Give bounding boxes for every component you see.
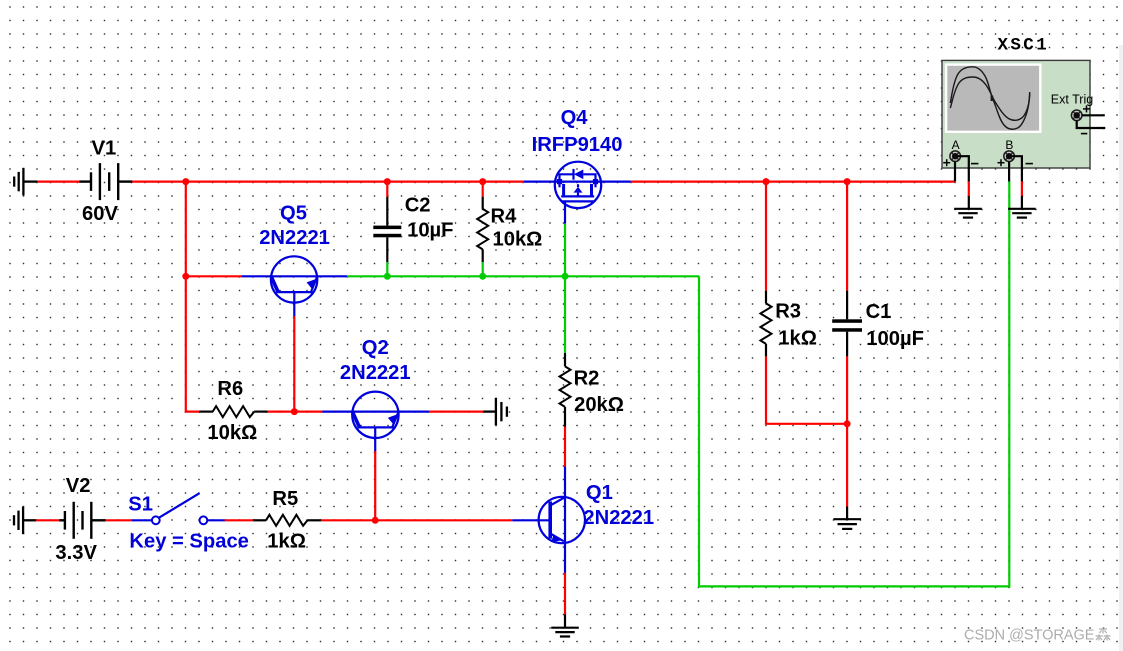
svg-text:20kΩ: 20kΩ xyxy=(574,394,624,416)
transistor Q1 xyxy=(512,467,585,573)
svg-text:10kΩ: 10kΩ xyxy=(207,422,257,444)
svg-text:C2: C2 xyxy=(405,195,431,217)
label scope B minus xyxy=(1026,163,1033,165)
wire green net: Q5 emitter row xyxy=(347,275,699,277)
svg-text:R3: R3 xyxy=(775,301,801,323)
wire V2 to ground (red) xyxy=(36,519,60,521)
right window edge shading xyxy=(1119,45,1123,651)
battery V1 xyxy=(79,163,132,200)
ground left of V2 xyxy=(14,507,36,535)
svg-text:2N2221: 2N2221 xyxy=(259,227,330,249)
ground below C1 xyxy=(833,507,861,529)
capacitor C1 xyxy=(832,291,862,357)
junction node top rail at R4 xyxy=(479,178,486,185)
ground below scope B xyxy=(1008,209,1036,218)
watermark CJK glyph xyxy=(1096,628,1111,641)
svg-text:2N2221: 2N2221 xyxy=(583,507,654,529)
wire R2 bottom to Q1 collector (red) xyxy=(564,426,566,467)
svg-text:R5: R5 xyxy=(272,488,298,510)
capacitor C2 xyxy=(373,182,401,263)
oscilloscope XSC1 body xyxy=(942,60,1090,168)
transistor Q5 xyxy=(241,256,347,316)
oscilloscope terminal A xyxy=(950,151,961,162)
junction node R5/Q2 collector xyxy=(372,517,379,524)
svg-text:10µF: 10µF xyxy=(407,220,453,242)
svg-text:S1: S1 xyxy=(128,494,153,516)
ground left of V1 xyxy=(14,168,37,196)
svg-text:2N2221: 2N2221 xyxy=(340,362,411,384)
wire V2 positive to S1 (red) xyxy=(105,519,132,521)
wire Q1 emitter to ground (red) xyxy=(564,573,566,615)
wire Q5 base tap (red) xyxy=(186,275,242,277)
oscilloscope terminal Ext Trig xyxy=(1071,110,1082,121)
wire Ext Trig minus stub xyxy=(1077,121,1106,129)
ground below scope A xyxy=(954,209,982,218)
resistor R3 xyxy=(761,291,772,357)
junction node green at R2/Q4 gate xyxy=(562,273,569,280)
wire Ext Trig plus stub xyxy=(1082,114,1105,116)
svg-text:3.3V: 3.3V xyxy=(55,542,97,564)
wire vertical from top rail down to R6 row (red) xyxy=(186,182,200,412)
wire green net: R4 bottom stub xyxy=(482,262,484,276)
oscilloscope waveform trace 2 xyxy=(950,77,1030,120)
wire S1 to R5 (red) xyxy=(224,519,253,521)
oscilloscope trigger mark xyxy=(991,96,994,102)
svg-text:Q4: Q4 xyxy=(561,107,589,129)
wire green net: C2 bottom stub xyxy=(386,262,388,276)
battery V2 xyxy=(59,502,105,539)
wire R5 to Q1 base (red) xyxy=(321,519,513,521)
svg-text:V1: V1 xyxy=(92,138,117,160)
wire scope B- red segment xyxy=(1021,181,1023,196)
svg-text:Q5: Q5 xyxy=(280,203,307,225)
svg-text:60V: 60V xyxy=(82,203,118,225)
wire V1 negative to ground (red) xyxy=(37,181,80,183)
switch S1 xyxy=(132,493,225,524)
svg-text:10kΩ: 10kΩ xyxy=(493,229,543,251)
wire C1 bottom to ground (red) xyxy=(846,356,848,506)
wire green net: right loop down and across to scope B+ xyxy=(699,181,1009,586)
svg-text:R4: R4 xyxy=(491,206,518,228)
svg-text:R2: R2 xyxy=(574,368,600,390)
svg-text:R6: R6 xyxy=(217,378,243,400)
ground right of Q2 xyxy=(483,398,507,426)
transistor Q2 xyxy=(322,392,429,452)
wire top rail to C1 (red) xyxy=(846,182,848,291)
svg-text:CSDN @STORAGE: CSDN @STORAGE xyxy=(964,628,1095,644)
ground below Q1 xyxy=(551,615,579,637)
wire top rail right of Q4 to scope A+ (red) xyxy=(631,181,955,183)
junction node top rail at V1 branch xyxy=(182,178,189,185)
svg-text:B: B xyxy=(1005,138,1013,152)
junction node green at R4 xyxy=(479,273,486,280)
wire scope B plus down (black stub, joins green) xyxy=(1008,161,1010,181)
wire scope A- red segment xyxy=(968,181,970,196)
label Ext Trig plus xyxy=(1083,105,1090,112)
svg-text:XSC1: XSC1 xyxy=(998,35,1050,55)
label scope B plus xyxy=(998,159,1005,166)
wire R3 bottom to C1 bottom node (red) xyxy=(766,356,847,423)
svg-text:Ext Trig: Ext Trig xyxy=(1051,93,1093,107)
wire V1 positive to node V1R (red top rail left) xyxy=(132,181,524,183)
resistor R5 xyxy=(253,515,321,526)
wire R6 right lead to Q2 base (red) xyxy=(268,411,323,413)
wire scope B minus to ground (black stubs) xyxy=(1012,156,1022,209)
svg-text:Key = Space: Key = Space xyxy=(129,531,249,553)
MOSFET Q4 xyxy=(524,162,631,224)
resistor R4 xyxy=(477,182,488,263)
svg-text:Q2: Q2 xyxy=(362,337,389,359)
label scope A minus xyxy=(971,163,978,165)
wire Q2 emitter to ground stub (red) xyxy=(429,411,483,413)
wire Q2 collector stem down to R5 row (red) xyxy=(374,451,376,521)
svg-text:Q1: Q1 xyxy=(586,482,613,504)
junction node R3/C1 bottom xyxy=(844,420,851,427)
junction node R6/Q5/Q2 xyxy=(291,408,298,415)
wire scope A minus to ground (black stubs) xyxy=(958,156,969,209)
svg-text:1kΩ: 1kΩ xyxy=(778,328,817,350)
oscilloscope terminal B xyxy=(1004,151,1015,162)
junction node Q5 base tap xyxy=(182,273,189,280)
svg-text:100µF: 100µF xyxy=(866,328,924,350)
svg-text:A: A xyxy=(952,138,960,152)
svg-text:V2: V2 xyxy=(66,475,91,497)
junction node top rail at C2 xyxy=(384,178,391,185)
wire scope A plus down to rail (black stub) xyxy=(954,161,956,181)
resistor R6 xyxy=(199,406,267,417)
wire top rail to R3 (red) xyxy=(765,182,767,291)
label Ext Trig minus xyxy=(1081,133,1087,135)
svg-text:C1: C1 xyxy=(866,301,892,323)
resistor R2 xyxy=(560,353,571,427)
wire green net: Q4 gate vertical down to R2 top xyxy=(564,224,566,353)
oscilloscope waveform trace 1 xyxy=(950,67,1029,129)
junction node top rail at R3 xyxy=(763,178,770,185)
junction node green at C2 xyxy=(384,273,391,280)
label scope A plus xyxy=(943,159,950,166)
svg-text:1kΩ: 1kΩ xyxy=(267,531,306,553)
wire Q5 collector stem down to R6 node (red) xyxy=(293,316,295,412)
svg-text:IRFP9140: IRFP9140 xyxy=(532,134,623,156)
junction node top rail at C1 xyxy=(844,178,851,185)
